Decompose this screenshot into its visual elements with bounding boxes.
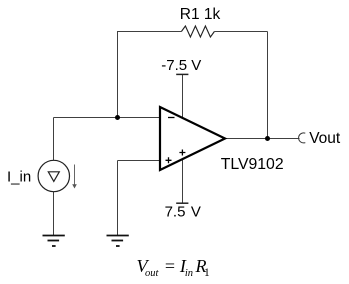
svg-text:Vout: Vout	[309, 130, 341, 147]
svg-text:TLV9102: TLV9102	[221, 156, 284, 173]
svg-text:7.5 V: 7.5 V	[165, 203, 201, 220]
svg-text:I_in: I_in	[7, 169, 31, 186]
svg-text:R1 1k: R1 1k	[180, 6, 221, 23]
svg-text:-7.5 V: -7.5 V	[161, 57, 201, 74]
